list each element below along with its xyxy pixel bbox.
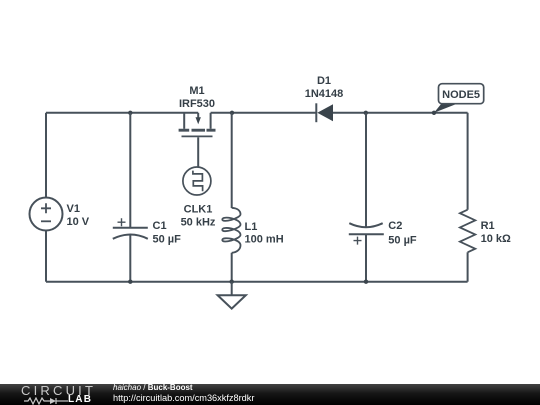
mosfet M1 right pad xyxy=(207,129,216,132)
logo diode bar xyxy=(55,398,57,404)
logo wire xyxy=(56,400,68,402)
capacitor C1 wire top xyxy=(129,113,131,228)
logo LAB xyxy=(68,394,92,405)
svg-text:50 kHz: 50 kHz xyxy=(181,217,216,229)
svg-text:V1: V1 xyxy=(67,203,80,215)
svg-text:10 kΩ: 10 kΩ xyxy=(481,233,511,245)
C2 plus sign xyxy=(354,237,362,245)
svg-text:M1: M1 xyxy=(189,85,204,97)
node junction ground xyxy=(230,280,234,284)
capacitor C2 wire top xyxy=(365,113,367,227)
svg-text:10 V: 10 V xyxy=(67,216,90,228)
voltage source V1 xyxy=(30,198,63,231)
mosfet M1 left pad xyxy=(179,129,190,132)
CLK1 square wave glyph xyxy=(193,171,203,192)
wire V1 top xyxy=(45,113,47,198)
title line xyxy=(113,383,193,392)
node junction C1 bottom xyxy=(128,280,132,284)
inductor L1 wire bottom xyxy=(231,253,233,282)
inductor L1 wire top xyxy=(231,113,233,208)
mosfet M1 body stub xyxy=(197,113,199,119)
mosfet M1 gate wire xyxy=(197,137,199,167)
svg-text:CLK1: CLK1 xyxy=(184,204,213,216)
wire mosfet drain to diode xyxy=(211,112,316,114)
svg-text:IRF530: IRF530 xyxy=(179,98,215,110)
capacitor C2 plus plate xyxy=(349,233,384,235)
capacitor C2 curved plate xyxy=(349,223,382,227)
mosfet M1 drain stub xyxy=(210,113,212,129)
mosfet M1 body arrow xyxy=(196,117,201,124)
diode D1 cathode bar xyxy=(315,103,317,122)
V1 plus sign xyxy=(41,203,51,213)
node junction C2 top xyxy=(364,111,368,115)
logo squiggle xyxy=(24,397,68,405)
mosfet M1 middle pad xyxy=(192,129,206,132)
net flag NODE5 tail xyxy=(434,104,457,113)
resistor R1 wire top xyxy=(467,113,469,210)
clock source CLK1 xyxy=(183,167,211,195)
ground stub xyxy=(231,282,233,296)
svg-text:D1: D1 xyxy=(317,75,331,87)
resistor R1 wire bottom xyxy=(467,252,469,281)
node junction C2 bottom xyxy=(364,280,368,284)
svg-text:50 µF: 50 µF xyxy=(388,235,417,247)
svg-text:C1: C1 xyxy=(153,220,167,232)
svg-text:100 mH: 100 mH xyxy=(245,234,284,246)
wire V1 bottom xyxy=(45,231,47,282)
resistor R1 zigzag xyxy=(460,210,475,253)
ground symbol xyxy=(218,295,246,308)
svg-text:1N4148: 1N4148 xyxy=(305,88,344,100)
capacitor C1 curved plate xyxy=(113,235,148,239)
svg-text:50 µF: 50 µF xyxy=(153,234,182,246)
mosfet M1 gate bar xyxy=(182,135,213,137)
logo CIRCUIT xyxy=(21,383,96,398)
V1 minus sign xyxy=(41,220,51,222)
mosfet M1 source stub xyxy=(183,113,185,129)
svg-text:NODE5: NODE5 xyxy=(442,89,480,101)
capacitor C2 wire bottom xyxy=(365,234,367,281)
C1 plus sign xyxy=(118,218,126,226)
svg-text:C2: C2 xyxy=(388,220,402,232)
url line xyxy=(113,393,254,403)
node junction L1 top xyxy=(230,111,234,115)
svg-text:R1: R1 xyxy=(481,220,495,232)
wire bottom rail xyxy=(46,281,468,283)
net flag NODE5 box xyxy=(439,84,484,104)
capacitor C1 wire bottom xyxy=(129,234,131,281)
logo diode xyxy=(50,398,56,404)
footer bar xyxy=(0,384,540,405)
logo resistor zigzag xyxy=(24,398,50,404)
diode D1 triangle xyxy=(317,104,333,121)
svg-text:L1: L1 xyxy=(245,221,258,233)
net flag NODE5 dot xyxy=(432,111,436,115)
wire diode to right corner xyxy=(333,112,468,114)
inductor L1 coil xyxy=(222,208,240,253)
capacitor C1 plus plate xyxy=(113,227,148,229)
wire top rail left xyxy=(46,112,198,114)
node junction C1 top xyxy=(128,111,132,115)
